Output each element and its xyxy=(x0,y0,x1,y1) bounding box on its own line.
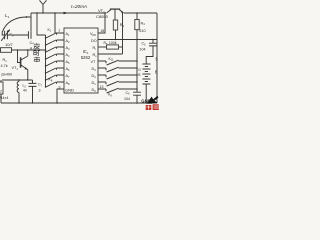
wire DO pin to right rail xyxy=(98,39,157,41)
svg-text:4n: 4n xyxy=(23,89,27,93)
switch K1 xyxy=(45,28,60,39)
pin Rt xyxy=(93,46,97,51)
node label GND with cursor xyxy=(141,96,158,104)
svg-text:DO: DO xyxy=(91,39,97,43)
node switch common bus xyxy=(45,35,47,87)
resistor R5 100k xyxy=(98,41,123,49)
switch on D3 pin xyxy=(98,67,138,72)
pin D1 xyxy=(92,81,97,86)
resistor R1 4.7k xyxy=(1,48,12,68)
trimmer capacitor C8 xyxy=(1,30,14,41)
pin GND xyxy=(65,88,74,93)
wire GND pin 9 to ground rail xyxy=(56,85,64,103)
svg-text:18: 18 xyxy=(100,29,104,33)
svg-text:I=20mA: I=20mA xyxy=(71,4,87,9)
resistor R2 xyxy=(0,80,8,103)
svg-text:2: 2 xyxy=(0,90,2,94)
ground rail xyxy=(1,102,157,104)
inductor L1 label xyxy=(5,13,10,19)
pin A7 xyxy=(66,74,71,79)
pin D0 xyxy=(92,88,97,93)
current arrow I=20mA xyxy=(64,4,87,14)
pin D3 xyxy=(92,67,97,72)
svg-text:β≥400: β≥400 xyxy=(2,73,13,77)
switch A3 xyxy=(45,47,64,53)
svg-text:G: G xyxy=(138,68,141,72)
node label chinese xyxy=(34,43,40,62)
wire OSC riser to rail xyxy=(122,12,123,54)
wire rail to pin A1 xyxy=(54,12,64,33)
switch A7 xyxy=(45,75,64,81)
wire VDD pin to rail xyxy=(98,12,106,33)
pin Rs xyxy=(93,53,98,58)
wire top rail right segment xyxy=(124,12,157,14)
pin A6 xyxy=(66,67,71,72)
wire OSC2 pin xyxy=(98,53,123,55)
svg-text:104: 104 xyxy=(140,48,146,52)
switch A6 xyxy=(45,68,64,74)
svg-text:104: 104 xyxy=(124,97,130,101)
op-amp IC1 5262 box xyxy=(64,28,98,93)
resistor R4 510 xyxy=(135,12,146,33)
pin A1 xyxy=(66,32,71,37)
svg-text:4.7k: 4.7k xyxy=(1,64,8,68)
wire trimmer to C4 xyxy=(7,34,28,36)
svg-text:1: 1 xyxy=(58,29,60,33)
switch on D1 pin xyxy=(98,81,138,86)
value 10/7 xyxy=(5,42,14,47)
switch A4 xyxy=(45,54,64,60)
resistor R3 xyxy=(113,20,124,40)
transistor VT2 xyxy=(107,9,124,20)
pin VT xyxy=(91,60,97,64)
transistor VT1 xyxy=(12,50,28,80)
svg-text:GND: GND xyxy=(65,88,74,93)
antenna xyxy=(40,0,47,13)
pin A8 xyxy=(66,81,71,86)
pin D2 xyxy=(92,74,97,79)
wire C4 to rail xyxy=(30,13,32,31)
pin A5 xyxy=(66,60,71,65)
node label 6 xyxy=(155,70,158,75)
wire right rail xyxy=(156,13,158,103)
capacitor C7 3 xyxy=(29,80,43,104)
svg-text:510: 510 xyxy=(139,29,145,33)
svg-text:VT: VT xyxy=(91,60,97,64)
pin A4 xyxy=(66,53,71,58)
battery GB xyxy=(138,64,150,104)
svg-text:3: 3 xyxy=(39,89,41,93)
inductor L2 xyxy=(17,80,27,104)
transistor VT2 labels xyxy=(96,8,109,19)
wire rail to switch bus xyxy=(36,12,45,35)
capacitor C5 104 xyxy=(140,40,158,64)
red watermark xyxy=(146,104,159,110)
svg-text:C8050: C8050 xyxy=(96,14,109,19)
switch A2 xyxy=(45,40,64,46)
pin VDD xyxy=(90,32,96,37)
wire emitter node xyxy=(2,79,33,80)
wire top rail left segment xyxy=(31,12,106,14)
svg-text:71k×4: 71k×4 xyxy=(0,96,8,100)
svg-text:10/7: 10/7 xyxy=(5,42,14,47)
wire collector line VT1 xyxy=(0,49,46,51)
pin A3 xyxy=(66,46,71,51)
wire data bus vertical xyxy=(136,30,138,92)
capacitor C6 104 xyxy=(124,91,141,104)
switch A5 xyxy=(45,61,64,67)
svg-text:13: 13 xyxy=(100,85,104,89)
value beta>=400 xyxy=(2,73,13,77)
node dot L1/rail xyxy=(26,16,28,18)
pin A2 xyxy=(66,39,71,44)
svg-text:5262: 5262 xyxy=(81,55,91,60)
pin DO xyxy=(91,39,97,43)
switch K9 on D0 pin xyxy=(98,85,138,97)
capacitor C4 xyxy=(28,31,34,50)
switch K8 xyxy=(45,78,64,88)
switch on D2 pin xyxy=(98,74,138,79)
node label 5 xyxy=(156,57,159,62)
switch K11 on VT pin xyxy=(98,57,138,65)
inductor L1 arc xyxy=(2,17,31,32)
